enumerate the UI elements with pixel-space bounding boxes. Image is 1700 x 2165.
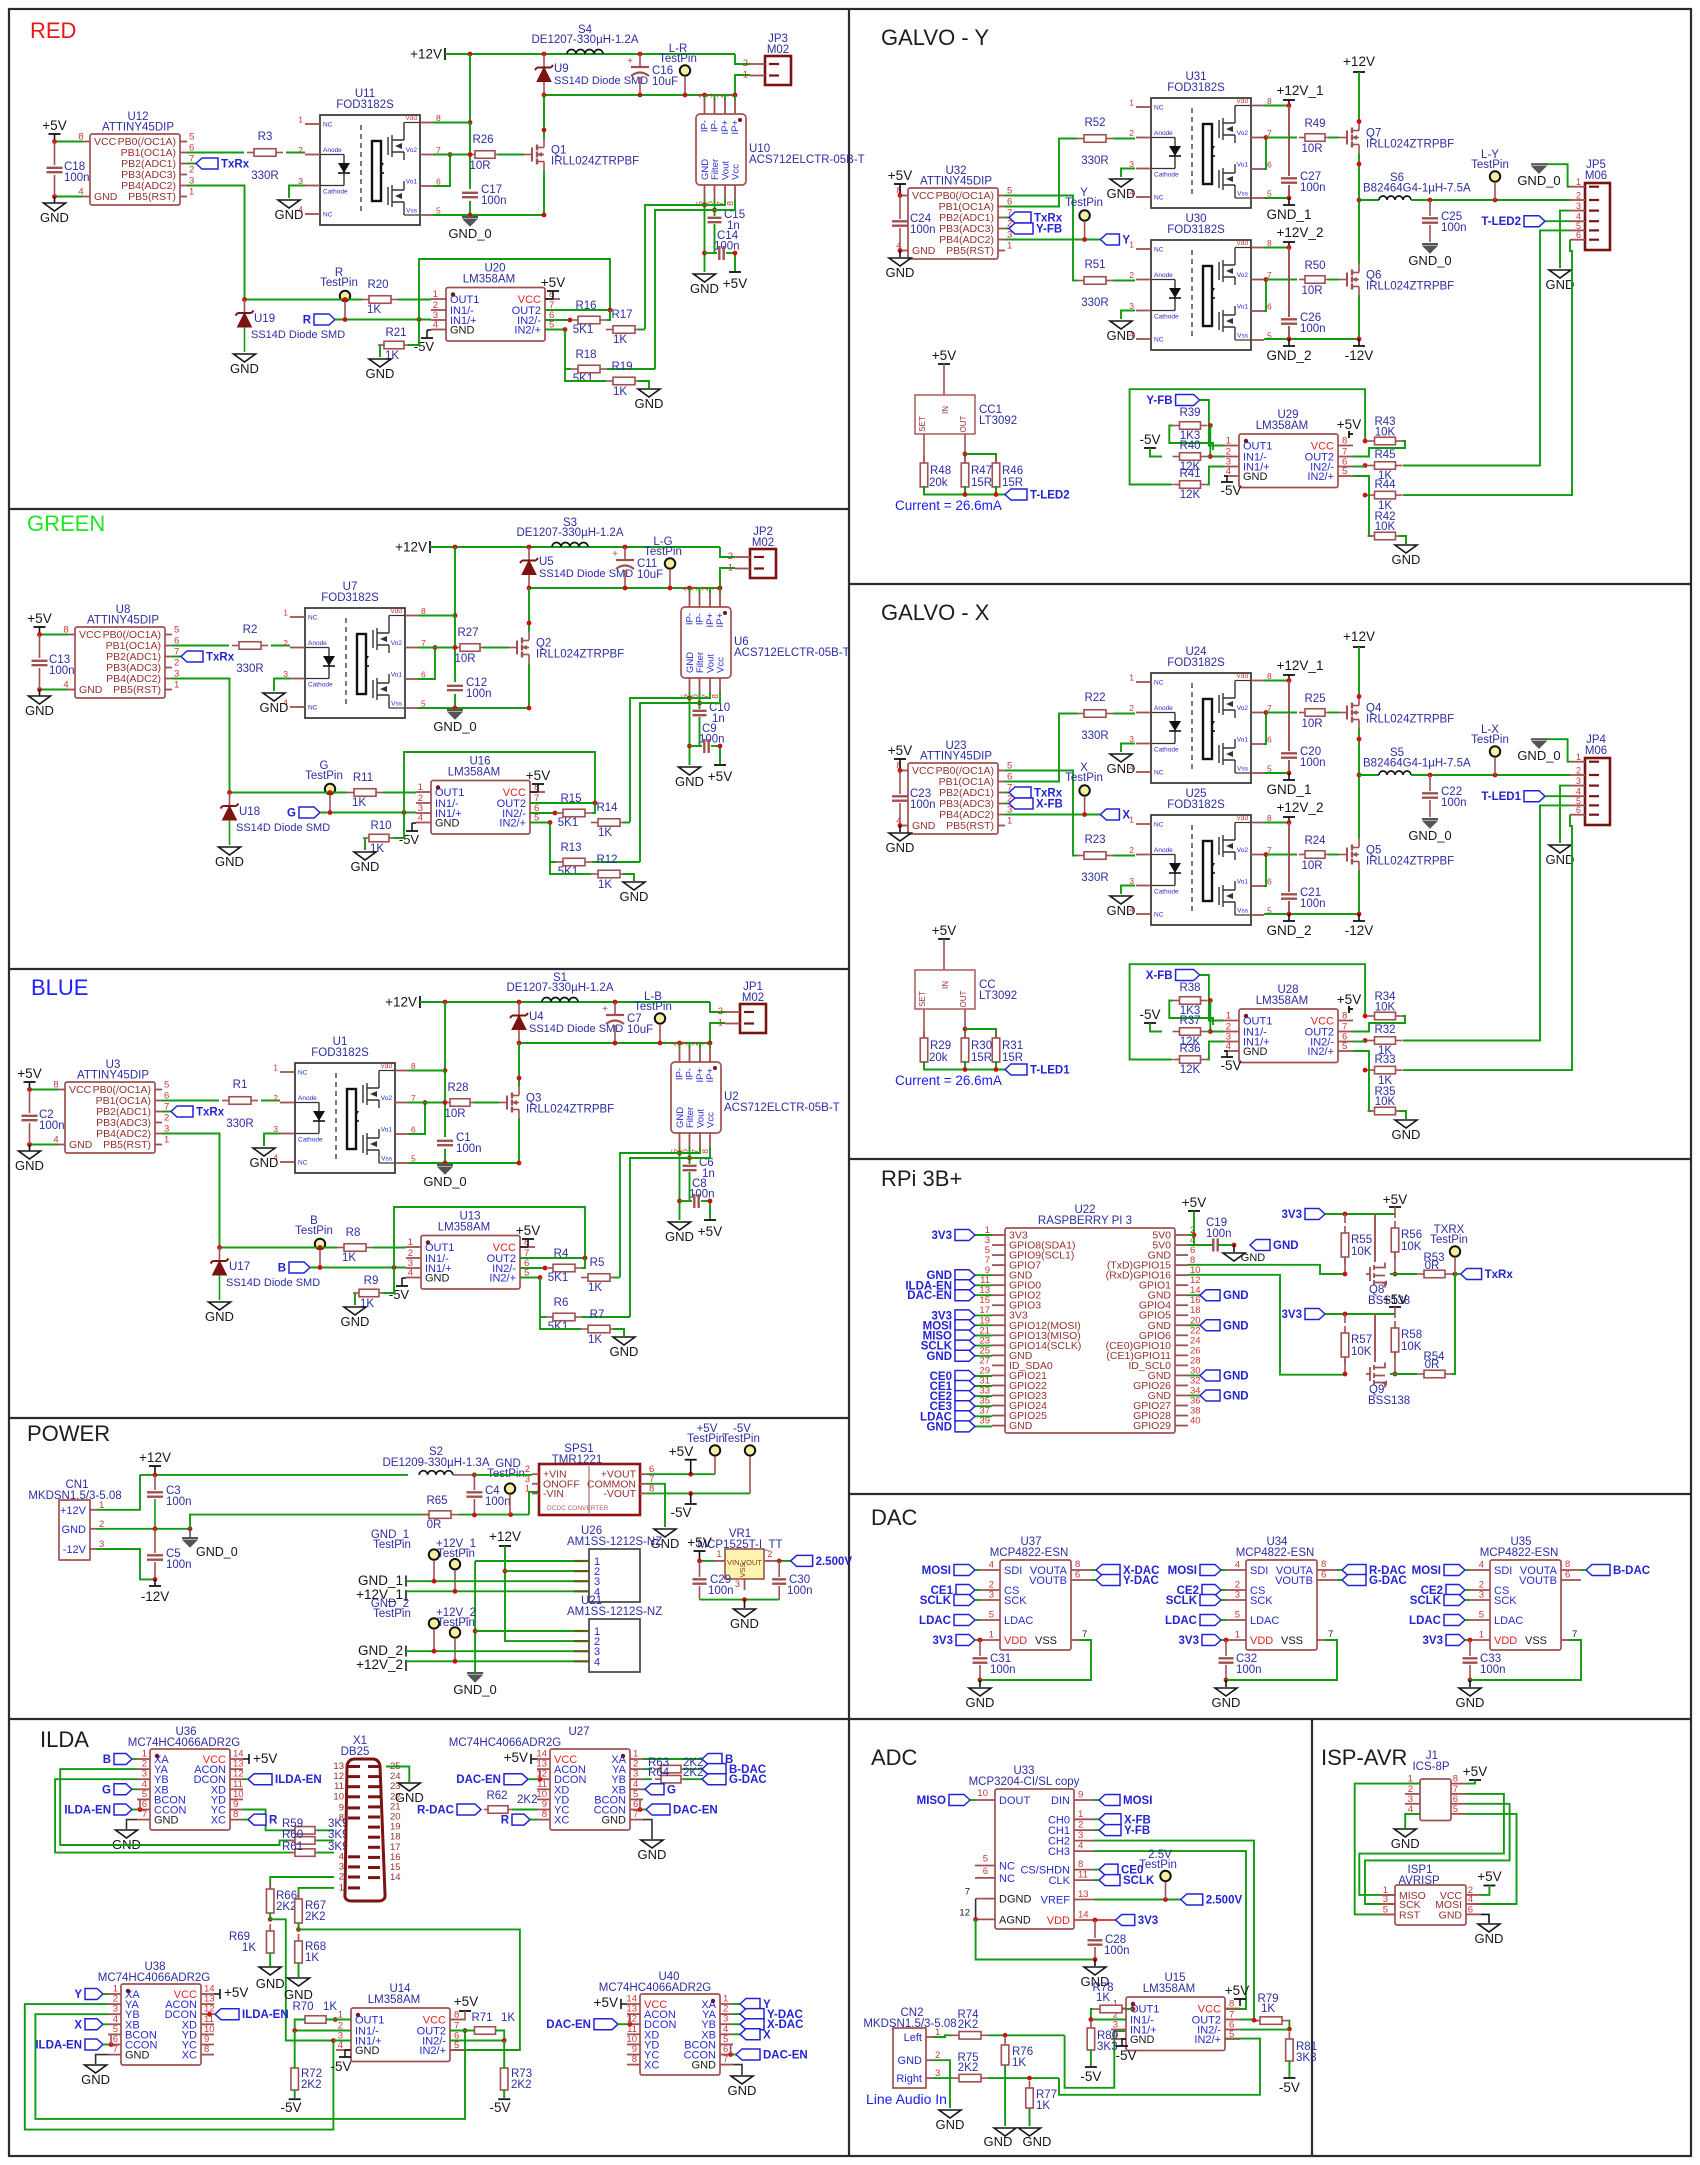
wire r39 right: [1208, 423, 1213, 428]
svg-text:TestPin: TestPin: [320, 277, 358, 289]
svg-text:1: 1: [1576, 752, 1581, 762]
svg-text:8: 8: [339, 1813, 344, 1824]
wire rfb to out2: [1353, 1016, 1405, 1032]
ground GND_0 (JP pin1): [1545, 164, 1570, 187]
svg-text:GND: GND: [728, 2083, 757, 2098]
svg-text:+12V_2: +12V_2: [1277, 225, 1324, 240]
svg-text:GND: GND: [1546, 277, 1575, 292]
svg-text:DIN: DIN: [1051, 1795, 1070, 1807]
current sensor U6 ACS712: [680, 586, 850, 699]
svg-text:LDAC: LDAC: [919, 1615, 951, 1627]
wire OUT2 row: [545, 309, 610, 311]
svg-text:5K1: 5K1: [573, 324, 593, 336]
wire Vout feedback: [630, 692, 710, 822]
svg-text:3: 3: [1576, 201, 1581, 211]
svg-text:Cathode: Cathode: [308, 682, 333, 689]
svg-text:1: 1: [728, 563, 733, 574]
power +5V (opamp): [530, 791, 538, 793]
svg-text:2K2: 2K2: [305, 1911, 325, 1923]
global label GND (c19): [1250, 1240, 1270, 1251]
global label MOSI (adc): [1099, 1795, 1120, 1806]
svg-text:3K3: 3K3: [1097, 2041, 1117, 2053]
resistor R4 5K1: [520, 1267, 545, 1269]
wire JP pin1 link: [710, 1023, 725, 1043]
svg-text:Anode: Anode: [1154, 847, 1173, 854]
svg-text:GND: GND: [425, 1273, 450, 1285]
resistor R36 12K: [1173, 1059, 1180, 1061]
svg-text:PB5(RST): PB5(RST): [128, 191, 176, 203]
svg-text:VSS: VSS: [1035, 1635, 1057, 1647]
svg-text:4: 4: [989, 1560, 994, 1571]
svg-text:R71: R71: [471, 2012, 492, 2024]
wire att vcc: [900, 195, 901, 197]
wire Q drain hi: [1358, 647, 1360, 697]
svg-text:Vss: Vss: [406, 208, 418, 215]
wire Y row: [1005, 239, 1100, 241]
svg-text:3V3: 3V3: [933, 1635, 953, 1647]
wire Vss2 rail: [1264, 338, 1359, 340]
svg-text:R44: R44: [1374, 479, 1396, 491]
global label T-LED1: [1524, 791, 1545, 802]
svg-text:Anode: Anode: [308, 640, 327, 647]
capacitor C33 100n: [1469, 1640, 1471, 1656]
svg-text:10R: 10R: [1301, 860, 1322, 872]
svg-text:1: 1: [989, 1630, 994, 1641]
svg-text:R30: R30: [971, 1040, 992, 1052]
ground (ACS): [679, 767, 701, 775]
svg-text:+12V: +12V: [139, 1450, 171, 1465]
svg-text:GND: GND: [638, 1847, 667, 1862]
svg-text:Vss: Vss: [391, 701, 403, 708]
svg-text:7: 7: [1082, 1629, 1087, 1640]
resistor R79 1K: [1253, 2020, 1260, 2022]
wire Q drain: [543, 95, 545, 139]
svg-text:TestPin: TestPin: [1471, 159, 1509, 171]
svg-text:R: R: [501, 1815, 510, 1827]
svg-text:GND: GND: [1241, 1252, 1266, 1264]
svg-text:GND: GND: [1107, 761, 1136, 776]
svg-text:FOD3182S: FOD3182S: [311, 1047, 369, 1059]
svg-text:GREEN: GREEN: [27, 511, 105, 536]
ground (r42b): [1395, 1120, 1417, 1128]
svg-text:0R: 0R: [1425, 1260, 1440, 1272]
svg-text:5: 5: [1267, 189, 1272, 199]
svg-text:U19: U19: [254, 313, 275, 325]
svg-text:3: 3: [1078, 1830, 1083, 1841]
svg-text:TestPin: TestPin: [373, 1539, 411, 1551]
svg-text:IP+: IP+: [715, 613, 726, 628]
svg-text:8: 8: [233, 1809, 238, 1820]
current sensor U10 ACS712: [695, 93, 865, 206]
svg-text:100n: 100n: [1104, 1945, 1130, 1957]
svg-text:R52: R52: [1084, 117, 1105, 129]
svg-text:VCC: VCC: [94, 136, 117, 148]
resistor R67 2K2: [298, 1892, 300, 1899]
svg-text:GND: GND: [1439, 1909, 1463, 1921]
svg-text:1: 1: [710, 586, 720, 591]
resistor R37 12K: [1173, 1031, 1180, 1033]
ground (diode): [234, 354, 256, 362]
svg-text:-12V: -12V: [1345, 348, 1374, 363]
svg-text:7: 7: [113, 2044, 118, 2055]
svg-text:4: 4: [338, 2040, 343, 2051]
wire R to opto anode: [271, 645, 290, 647]
svg-text:SS14D Diode SMD: SS14D Diode SMD: [236, 822, 330, 834]
svg-text:12K: 12K: [1180, 1064, 1201, 1076]
svg-text:2: 2: [743, 58, 748, 69]
svg-text:Y-DAC: Y-DAC: [1123, 1575, 1159, 1587]
svg-text:DE1207-330µH-1.2A: DE1207-330µH-1.2A: [532, 34, 639, 46]
ground (opto cathode): [274, 679, 290, 692]
svg-text:R31: R31: [1002, 1040, 1023, 1052]
wire dgnd-agnd: [975, 1899, 977, 1920]
svg-text:R6: R6: [554, 1297, 569, 1309]
svg-text:DOUT: DOUT: [999, 1795, 1030, 1807]
svg-text:GND: GND: [62, 1524, 87, 1536]
wire bcon jog (u36): [139, 1799, 141, 1809]
wire R19 to gnd: [613, 1329, 624, 1336]
svg-text:Vss: Vss: [381, 1156, 393, 1163]
svg-text:2: 2: [1129, 270, 1134, 280]
svg-text:DAC-EN: DAC-EN: [763, 2050, 808, 2062]
wire RxD: [1188, 1275, 1345, 1375]
wire u38 YB loop: [35, 2014, 465, 2119]
resistor R42 10K (galvo): [1368, 1110, 1375, 1112]
resistor R31 15R: [965, 1029, 996, 1038]
svg-text:Vdd: Vdd: [380, 1063, 392, 1070]
global label GND (rpi): [1188, 1294, 1200, 1296]
svg-text:NC: NC: [1154, 195, 1164, 202]
global label R (u27 xc): [512, 1814, 530, 1825]
resistor R16 5K1: [545, 319, 570, 321]
IC U8 ATTINY45DIP: [63, 604, 179, 698]
inductor S6: [1359, 199, 1379, 201]
wire switch node: [529, 587, 720, 589]
ground GND_1: [1288, 773, 1290, 780]
wire Vss rail: [418, 707, 529, 709]
svg-text:100n: 100n: [466, 688, 492, 700]
svg-text:R3: R3: [258, 131, 273, 143]
svg-text:13: 13: [1078, 1889, 1089, 1900]
global label B (u27 xa): [643, 1758, 702, 1760]
svg-text:+5V: +5V: [253, 1751, 277, 1766]
svg-text:SCLK: SCLK: [1123, 1875, 1155, 1887]
svg-text:R7: R7: [590, 1309, 605, 1321]
svg-text:+: +: [602, 1004, 608, 1015]
svg-text:100n: 100n: [1441, 797, 1467, 809]
power flag +5V (ACS): [719, 746, 721, 765]
svg-text:-5V: -5V: [1080, 2069, 1101, 2084]
svg-text:1K: 1K: [367, 304, 381, 316]
svg-text:R4: R4: [554, 1248, 569, 1260]
svg-text:FOD3182S: FOD3182S: [1167, 224, 1225, 236]
svg-text:SDI: SDI: [1494, 1565, 1512, 1577]
global label X-DAC (u40): [733, 2023, 740, 2025]
svg-text:4: 4: [594, 1656, 600, 1668]
svg-text:1K: 1K: [501, 2012, 515, 2024]
svg-text:ILDA-EN: ILDA-EN: [275, 1774, 322, 1786]
svg-text:U9: U9: [554, 63, 569, 75]
svg-text:100n: 100n: [1300, 757, 1326, 769]
wire 5V0 feed: [1188, 1211, 1194, 1245]
svg-text:10: 10: [333, 1791, 344, 1802]
svg-text:+12V: +12V: [1343, 629, 1375, 644]
wire r41 to in+: [1208, 1042, 1225, 1060]
svg-text:LDAC: LDAC: [1250, 1615, 1279, 1627]
svg-text:2: 2: [728, 551, 733, 562]
svg-text:LM358AM: LM358AM: [368, 1994, 420, 2006]
power +5V (u40): [621, 2003, 627, 2005]
svg-text:IRLL024ZTRPBF: IRLL024ZTRPBF: [526, 1104, 614, 1116]
svg-text:+5V: +5V: [1337, 992, 1361, 1007]
svg-text:8: 8: [1229, 1999, 1234, 2010]
optocoupler U11 FOD3182S: [298, 88, 441, 225]
svg-text:5: 5: [421, 699, 426, 709]
svg-text:GND: GND: [1273, 1240, 1299, 1252]
svg-text:100n: 100n: [481, 195, 507, 207]
svg-text:7: 7: [421, 638, 426, 648]
svg-text:LM358AM: LM358AM: [448, 767, 500, 779]
svg-text:1: 1: [339, 1882, 344, 1893]
wire PB1 to top resistor: [1005, 714, 1077, 782]
wire C17 column: [469, 123, 471, 190]
svg-text:+5V: +5V: [723, 276, 747, 291]
power flag +12V: [444, 48, 446, 60]
wire bcon jog (u40): [730, 2044, 732, 2054]
svg-text:GND: GND: [351, 859, 380, 874]
ground (r69): [259, 1967, 281, 1975]
svg-text:3K3: 3K3: [1296, 2052, 1316, 2064]
svg-text:NC: NC: [1154, 680, 1164, 687]
svg-text:GND: GND: [230, 361, 259, 376]
svg-text:IP-: IP-: [710, 120, 721, 132]
svg-text:TxRx: TxRx: [1485, 1269, 1514, 1281]
svg-text:GND: GND: [912, 820, 936, 832]
wire JP pin5 feedback: [1403, 230, 1570, 465]
svg-text:GND: GND: [40, 210, 69, 225]
global label SCLK (adc): [1099, 1875, 1120, 1886]
svg-text:1: 1: [418, 782, 423, 793]
global label Y: [1100, 234, 1119, 245]
svg-text:1: 1: [1235, 1630, 1240, 1641]
wire Q source lo: [1358, 871, 1360, 915]
op-amp U28 LM358AM: [1224, 984, 1353, 1063]
wire Q drain: [518, 1043, 520, 1087]
ground (r42b): [1395, 545, 1417, 553]
svg-text:3V3: 3V3: [1138, 1915, 1158, 1927]
svg-text:GND: GND: [215, 854, 244, 869]
svg-text:-5V: -5V: [1220, 483, 1241, 498]
svg-text:Current = 26.6mA: Current = 26.6mA: [895, 498, 1002, 513]
svg-text:-12V: -12V: [141, 1589, 170, 1604]
ground (sps common): [654, 1529, 676, 1537]
power +5V (u38): [214, 1993, 220, 1995]
wire output node: [1411, 774, 1570, 776]
svg-text:R18: R18: [575, 349, 596, 361]
svg-text:Vcc: Vcc: [706, 1112, 717, 1128]
capacitor C6 1n: [689, 1147, 691, 1164]
global label R (u36 xc): [248, 1814, 266, 1825]
transistor Q1 IRLL024ZTRPBF: [524, 139, 639, 171]
global label CE0 (rpi-left): [975, 1375, 992, 1377]
svg-text:B82464G4-1µH-7.5A: B82464G4-1µH-7.5A: [1363, 758, 1471, 770]
svg-text:Anode: Anode: [1154, 272, 1173, 279]
svg-text:MC74HC4066ADR2G: MC74HC4066ADR2G: [128, 1737, 241, 1749]
svg-text:SS14D Diode SMD: SS14D Diode SMD: [226, 1277, 320, 1289]
svg-text:2: 2: [690, 1041, 700, 1046]
svg-text:+: +: [627, 56, 633, 67]
ground (R21): [354, 852, 376, 860]
global label GND (rpi): [1188, 1375, 1200, 1377]
wire Q source: [518, 1119, 520, 1164]
wire Q drain: [528, 588, 530, 632]
power +5V (opamp out): [1349, 1008, 1353, 1010]
svg-text:Vdd: Vdd: [1236, 98, 1248, 105]
svg-text:IN2/+: IN2/+: [419, 2045, 446, 2057]
wire +12V rail: [420, 1001, 710, 1003]
transistor Q5 IRLL024ZTRPBF: [1339, 839, 1454, 871]
svg-text:GND: GND: [366, 366, 395, 381]
svg-text:GND: GND: [81, 2072, 110, 2087]
svg-text:10R: 10R: [454, 653, 475, 665]
resistor R20 1K: [362, 299, 369, 301]
svg-text:+12V: +12V: [385, 995, 417, 1010]
svg-text:R65: R65: [426, 1495, 447, 1507]
svg-text:TestPin: TestPin: [687, 1433, 725, 1445]
svg-text:3: 3: [735, 1579, 740, 1589]
svg-text:ACS712ELCTR-05B-T: ACS712ELCTR-05B-T: [734, 647, 850, 659]
svg-text:Filter: Filter: [695, 652, 706, 673]
wire opamp in row: [230, 792, 348, 794]
svg-text:U17: U17: [229, 1261, 250, 1273]
svg-text:100n: 100n: [787, 1585, 813, 1597]
svg-text:2: 2: [1129, 703, 1134, 713]
wire Filter feedback: [630, 1147, 710, 1317]
wire R19 to gnd: [623, 874, 634, 881]
global label DAC-EN (rpi-left): [975, 1294, 992, 1296]
svg-text:GND_2: GND_2: [1266, 923, 1311, 938]
resistor R63 2K2: [643, 1768, 652, 1770]
svg-text:1: 1: [1226, 436, 1231, 447]
svg-text:6: 6: [1075, 1570, 1080, 1581]
wire TxD: [1188, 1265, 1345, 1274]
svg-text:8: 8: [1078, 1859, 1083, 1870]
IC U12 ATTINY45DIP: [78, 111, 194, 205]
svg-text:GND: GND: [692, 2060, 717, 2072]
wire rfb to out2: [1353, 441, 1405, 457]
current sensor U2 ACS712: [670, 1041, 840, 1154]
resistor R59 3K9: [289, 1829, 295, 1831]
global label R-DAC / resistor R62: [457, 1804, 481, 1815]
resistor R52 330R: [1077, 138, 1084, 140]
svg-text:5: 5: [1235, 1610, 1240, 1621]
wire JP pin6 feedback: [1403, 815, 1572, 1070]
svg-text:GND: GND: [1392, 1127, 1421, 1142]
svg-text:SCLK: SCLK: [1410, 1595, 1442, 1607]
svg-text:5K1: 5K1: [573, 373, 593, 385]
svg-text:5: 5: [436, 206, 441, 216]
svg-text:3: 3: [690, 586, 700, 591]
ground (JP pin3): [1560, 786, 1570, 843]
resistor R28 10R: [408, 1102, 444, 1104]
svg-text:10K: 10K: [1401, 1241, 1422, 1253]
power -5V (r73): [498, 2098, 510, 2100]
wire big loop: [1130, 389, 1366, 484]
ground GND_0: [462, 216, 478, 218]
svg-text:GND: GND: [125, 2050, 150, 2062]
wire vdd 3v3: [1094, 1919, 1116, 1921]
resistor R54 0R: [1417, 1373, 1424, 1375]
svg-text:GND: GND: [984, 2134, 1013, 2149]
global label 3V3 (U35): [1446, 1635, 1465, 1646]
wire r71 right to in2-: [450, 2031, 504, 2041]
svg-text:2: 2: [700, 586, 710, 591]
svg-text:+5V: +5V: [1383, 1292, 1407, 1307]
svg-text:8: 8: [1565, 1559, 1570, 1570]
svg-text:TestPin: TestPin: [722, 1433, 760, 1445]
power flag +12V: [429, 541, 431, 553]
svg-text:GND: GND: [1243, 471, 1268, 483]
svg-text:R64: R64: [648, 1767, 670, 1779]
svg-text:+5V: +5V: [708, 769, 732, 784]
svg-text:R-DAC: R-DAC: [417, 1805, 454, 1817]
wire r70 left to in1-: [295, 2020, 351, 2031]
resistor R61 3K9: [289, 1852, 295, 1854]
svg-text:Vo1: Vo1: [406, 179, 418, 186]
global label ILDA-EN (u36 dcon): [248, 1774, 272, 1785]
svg-text:10K: 10K: [1401, 1341, 1422, 1353]
svg-text:VCC: VCC: [912, 190, 935, 202]
wire U21 pin1: [475, 1630, 574, 1632]
wire drain 3v3: [1374, 1314, 1376, 1362]
global label Y (u38): [85, 1989, 103, 2000]
svg-text:R61: R61: [282, 1841, 303, 1853]
svg-text:MCP4822-ESN: MCP4822-ESN: [1480, 1547, 1559, 1559]
wire r42b gnd: [1399, 1111, 1407, 1119]
svg-text:Vcc: Vcc: [731, 164, 742, 180]
svg-text:+12V: +12V: [395, 540, 427, 555]
svg-text:GND_0: GND_0: [448, 226, 491, 241]
global label R-DAC (U34): [1342, 1565, 1366, 1576]
global label MOSI (U35): [1444, 1565, 1465, 1576]
svg-text:100n: 100n: [990, 1664, 1016, 1676]
svg-text:4: 4: [408, 1268, 413, 1279]
svg-text:5: 5: [989, 1610, 994, 1621]
power flag +12V: [419, 996, 421, 1008]
capacitor C18 100n: [54, 142, 56, 166]
svg-text:12K: 12K: [1180, 489, 1201, 501]
svg-text:1K: 1K: [242, 1942, 256, 1954]
svg-text:ATTINY45DIP: ATTINY45DIP: [102, 122, 174, 134]
svg-text:-5V: -5V: [1139, 432, 1160, 447]
global label CE2 (U34): [1202, 1585, 1221, 1596]
svg-text:1K: 1K: [588, 1334, 602, 1346]
svg-text:6: 6: [436, 177, 441, 187]
svg-text:6: 6: [411, 1125, 416, 1135]
power flag -12V: [1358, 339, 1360, 346]
svg-text:GND: GND: [260, 700, 289, 715]
svg-text:GND: GND: [1391, 1836, 1420, 1851]
optocoupler U7 FOD3182S: [283, 581, 426, 718]
svg-text:ICS-8P: ICS-8P: [1412, 1761, 1449, 1773]
svg-text:1: 1: [283, 608, 288, 618]
svg-text:3: 3: [1576, 776, 1581, 786]
wire in2- (u15): [1240, 2029, 1289, 2031]
svg-text:SCLK: SCLK: [1166, 1595, 1198, 1607]
svg-text:6: 6: [1321, 1570, 1326, 1581]
svg-text:MOSI: MOSI: [1168, 1565, 1197, 1577]
op-amp U29 LM358AM: [1224, 409, 1353, 488]
